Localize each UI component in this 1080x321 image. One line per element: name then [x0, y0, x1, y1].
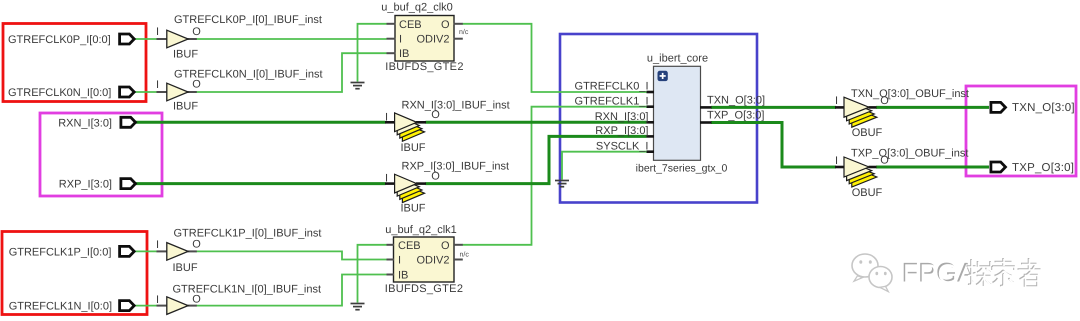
pin stub RXN stacked IBUF input [385, 121, 396, 124]
buffer GTREFCLK1N_I[0]_IBUF_inst triangle [167, 297, 188, 315]
ground symbol for CEB0 [351, 83, 365, 89]
svg-text:RXN_I[3:0]: RXN_I[3:0] [595, 111, 649, 123]
buffer TXP_O[3:0]_OBUF_inst stacked triangles [844, 157, 877, 187]
svg-text:TXP_O[3:0]: TXP_O[3:0] [707, 110, 764, 122]
pin stub TXP OBUF output [869, 166, 877, 169]
pin stub RXP stacked IBUF output [416, 182, 426, 185]
port GTREFCLK0P_I[0:0] symbol [120, 34, 135, 44]
pin stub IBUF1N input [157, 305, 168, 307]
svg-text:I: I [156, 294, 159, 306]
port GTREFCLK0N_I[0:0] symbol [120, 87, 135, 97]
pin stub TXN OBUF input [835, 106, 845, 109]
svg-text:IB: IB [399, 48, 409, 60]
watermark hanzi ZHE (person) strokes [1018, 258, 1042, 287]
wire net clk1 O output to u_ibert_core GTREFCLK1_I [463, 107, 647, 245]
svg-text:RXN_I[3:0]: RXN_I[3:0] [58, 117, 112, 129]
pin stub TXN OBUF output [869, 106, 877, 109]
port GTREFCLK1N_I[0:0] symbol [120, 301, 135, 311]
port TXN_O[3:0] symbol [991, 102, 1006, 112]
port GTREFCLK1P_I[0:0] symbol [120, 246, 135, 256]
bus TXN_O[3:0]: u_ibert_core to OBUF input [711, 106, 836, 109]
pin stub u_ibert RXP_I [647, 135, 655, 138]
wire net GTREFCLK0N_IBUF: IBUF output to IBUFDS_GTE2 pin IB (jog up at x=342) [196, 53, 386, 92]
svg-text:I: I [398, 255, 401, 267]
svg-text:u_buf_q2_clk0: u_buf_q2_clk0 [381, 2, 453, 14]
port TXP_O[3:0] symbol [991, 162, 1006, 172]
svg-text:TXN_O[3:0]: TXN_O[3:0] [707, 95, 765, 107]
svg-text:TXN_O[3:0]: TXN_O[3:0] [1012, 102, 1075, 114]
bus TXN_O[3:0] OBUF output to port [876, 106, 989, 109]
port group box bottom-left (red) [2, 232, 147, 315]
pin stub IBUF0P input [157, 38, 168, 40]
svg-text:GTREFCLK0P_I[0]_IBUF_inst: GTREFCLK0P_I[0]_IBUF_inst [174, 14, 322, 26]
wire net GTREFCLK0P: port to IBUF input [135, 38, 158, 40]
pin stub clk1 ODIV2 n/c [454, 259, 463, 261]
svg-text:I: I [156, 26, 159, 38]
bus RXN_I[3:0]: port to stacked IBUF input [136, 121, 386, 124]
svg-text:RXP_I[3:0]_IBUF_inst: RXP_I[3:0]_IBUF_inst [402, 161, 510, 173]
svg-text:IB: IB [398, 270, 408, 282]
wire net CEB1 ground to clk1 pin CEB [358, 245, 387, 303]
svg-text:IBUF: IBUF [173, 101, 198, 113]
svg-text:RXP_I[3:0]: RXP_I[3:0] [59, 179, 112, 191]
svg-text:I: I [156, 79, 159, 91]
svg-text:TXP_O[3:0]_OBUF_inst: TXP_O[3:0]_OBUF_inst [851, 148, 968, 160]
svg-text:IBUF: IBUF [173, 262, 198, 274]
wire net GTREFCLK0N: port to IBUF input [135, 91, 158, 93]
watermark hanzi SUO (search) strokes [992, 258, 1015, 287]
svg-text:GTREFCLK1P_I[0:0]: GTREFCLK1P_I[0:0] [9, 246, 112, 258]
svg-text:O: O [192, 79, 201, 91]
svg-text:GTREFCLK1N_I[0:0]: GTREFCLK1N_I[0:0] [9, 301, 112, 313]
svg-text:n/c: n/c [459, 28, 469, 36]
svg-text:CEB: CEB [399, 19, 422, 31]
pin stub clk1 CEB [387, 244, 395, 246]
wire net CEB0 ground to IBUFDS_GTE2 pin CEB [358, 24, 387, 82]
svg-text:O: O [880, 154, 889, 166]
pin stub u_ibert RXN_I [647, 121, 655, 124]
buffer GTREFCLK0N_I[0]_IBUF_inst triangle [167, 83, 188, 101]
pin stub clk1 IB [387, 274, 395, 276]
port RXN_I[3:0] symbol [121, 117, 136, 127]
pin stub u_ibert SYSCLK_I [647, 150, 655, 153]
buffer TXN_O[3:0]_OBUF_inst stacked triangles [844, 97, 877, 127]
svg-text:IBUFDS_GTE2: IBUFDS_GTE2 [385, 61, 464, 73]
svg-text:IBUF: IBUF [400, 203, 425, 215]
buffer RXN_I[3:0]_IBUF_inst stacked triangles [395, 113, 425, 141]
port group box top-left (red) [3, 24, 146, 102]
hierarchy boundary box u_ibert_core (blue) [560, 34, 757, 203]
pin stub u_ibert GTREFCLK0_I [647, 91, 655, 94]
svg-text:O: O [192, 293, 201, 305]
svg-text:OBUF: OBUF [852, 187, 883, 199]
bus RXP_I[3:0]: port to stacked IBUF input [136, 182, 386, 185]
wire net GTREFCLK0P_IBUF: IBUF output to IBUFDS_GTE2 pin I [196, 38, 386, 40]
bus RXP_I_IBUF[3:0]: stacked IBUF output up to u_ibert_core RXP_I [426, 136, 647, 183]
block u_ibert_core body [654, 66, 701, 160]
pin stub clk1 O [454, 244, 463, 246]
svg-text:CEB: CEB [398, 240, 421, 252]
block u_buf_q2_clk1 IBUFDS_GTE2 body [394, 237, 455, 282]
svg-text:O: O [880, 95, 889, 107]
svg-text:O: O [441, 19, 450, 31]
port group box left (magenta) [40, 113, 162, 196]
svg-text:GTREFCLK0_I: GTREFCLK0_I [575, 81, 649, 93]
watermark hanzi TAN (explore) strokes [967, 259, 993, 287]
pin stub IBUF1P output [188, 250, 197, 252]
pin stub IBUF1P input [157, 250, 168, 252]
wire net clk0 O output to u_ibert_core GTREFCLK0_I [463, 24, 647, 92]
pin stub clk1 I [387, 259, 395, 261]
svg-text:u_buf_q2_clk1: u_buf_q2_clk1 [385, 224, 457, 236]
svg-text:O: O [192, 239, 201, 251]
buffer GTREFCLK1P_I[0]_IBUF_inst triangle [167, 243, 188, 261]
pin stub clk0 O [454, 23, 463, 25]
bus TXP_O[3:0]: u_ibert_core down to OBUF input [711, 123, 836, 168]
svg-text:O: O [431, 171, 440, 183]
svg-text:IBUF: IBUF [173, 49, 198, 61]
wire net GTREFCLK1P: port to IBUF input [135, 250, 158, 252]
pin stub clk0 ODIV2 n/c [454, 38, 463, 40]
pin stub clk0 CEB [387, 23, 396, 25]
port RXP_I[3:0] symbol [121, 179, 136, 189]
svg-text:FPGA: FPGA [903, 259, 977, 289]
svg-text:I: I [385, 111, 388, 123]
port group box right (magenta) [966, 86, 1076, 176]
pin stub IBUF0N output [188, 91, 197, 93]
pin stub u_ibert TXN_O [700, 106, 712, 109]
wire net GTREFCLK1N: port to IBUF input [135, 305, 158, 307]
svg-text:O: O [431, 109, 440, 121]
pin stub IBUF0N input [157, 91, 168, 93]
svg-text:IBUF: IBUF [400, 142, 425, 154]
svg-text:TXN_O[3:0]_OBUF_inst: TXN_O[3:0]_OBUF_inst [851, 88, 969, 100]
watermark logo wechat bubbles [852, 254, 892, 292]
svg-text:O: O [192, 26, 201, 38]
svg-text:TXP_O[3:0]: TXP_O[3:0] [1012, 162, 1074, 174]
pin stub u_ibert GTREFCLK1_I [647, 105, 655, 108]
svg-text:I: I [835, 155, 838, 167]
svg-text:O: O [441, 240, 450, 252]
buffer RXP_I[3:0]_IBUF_inst stacked triangles [395, 174, 425, 202]
pin stub RXP stacked IBUF input [385, 182, 396, 185]
ground symbol for CEB1 [351, 304, 365, 310]
svg-text:GTREFCLK0P_I[0:0]: GTREFCLK0P_I[0:0] [8, 34, 111, 46]
svg-text:GTREFCLK0N_I[0:0]: GTREFCLK0N_I[0:0] [8, 87, 111, 99]
pin stub clk0 IB [387, 52, 396, 54]
svg-text:I: I [835, 95, 838, 107]
ground symbol for SYSCLK_I [555, 181, 569, 187]
bus TXP_O[3:0] OBUF output to port [876, 166, 989, 169]
svg-text:I: I [385, 173, 388, 185]
pin stub IBUF0P output [188, 38, 197, 40]
svg-text:RXP_I[3:0]: RXP_I[3:0] [595, 125, 648, 137]
svg-text:n/c: n/c [460, 251, 470, 259]
svg-text:u_ibert_core: u_ibert_core [647, 53, 708, 65]
svg-text:RXN_I[3:0]_IBUF_inst: RXN_I[3:0]_IBUF_inst [402, 100, 510, 112]
svg-text:ibert_7series_gtx_0: ibert_7series_gtx_0 [636, 163, 728, 175]
svg-text:ODIV2: ODIV2 [416, 34, 449, 46]
svg-text:OBUF: OBUF [852, 127, 883, 139]
pin stub IBUF1N output [188, 305, 197, 307]
watermark text FPGA (embossed) [902, 258, 977, 290]
pin stub TXP OBUF input [835, 166, 845, 169]
wire net SYSCLK_I to ground [562, 152, 647, 180]
wire net GTREFCLK1P_IBUF: IBUF output to clk1 pin I (jog down at x=342) [196, 251, 386, 259]
svg-text:ODIV2: ODIV2 [416, 255, 449, 267]
svg-text:IBUFDS_GTE2: IBUFDS_GTE2 [385, 283, 464, 295]
pin stub clk0 I [387, 38, 396, 40]
svg-text:SYSCLK_I: SYSCLK_I [596, 141, 649, 153]
wire net GTREFCLK1N_IBUF: IBUF output to clk1 pin IB (jog up at x=342) [196, 275, 386, 306]
pin stub RXN stacked IBUF output [416, 121, 426, 124]
bus RXN_I_IBUF[3:0]: stacked IBUF output to u_ibert_core RXN_I [426, 121, 647, 124]
svg-text:I: I [156, 239, 159, 251]
svg-text:I: I [399, 34, 402, 46]
block u_buf_q2_clk0 IBUFDS_GTE2 body [395, 16, 454, 62]
buffer GTREFCLK0P_I[0]_IBUF_inst triangle [167, 30, 188, 48]
expand icon (+) on u_ibert_core [658, 71, 668, 81]
pin stub u_ibert TXP_O [700, 121, 712, 124]
svg-text:GTREFCLK1_I: GTREFCLK1_I [575, 96, 649, 108]
